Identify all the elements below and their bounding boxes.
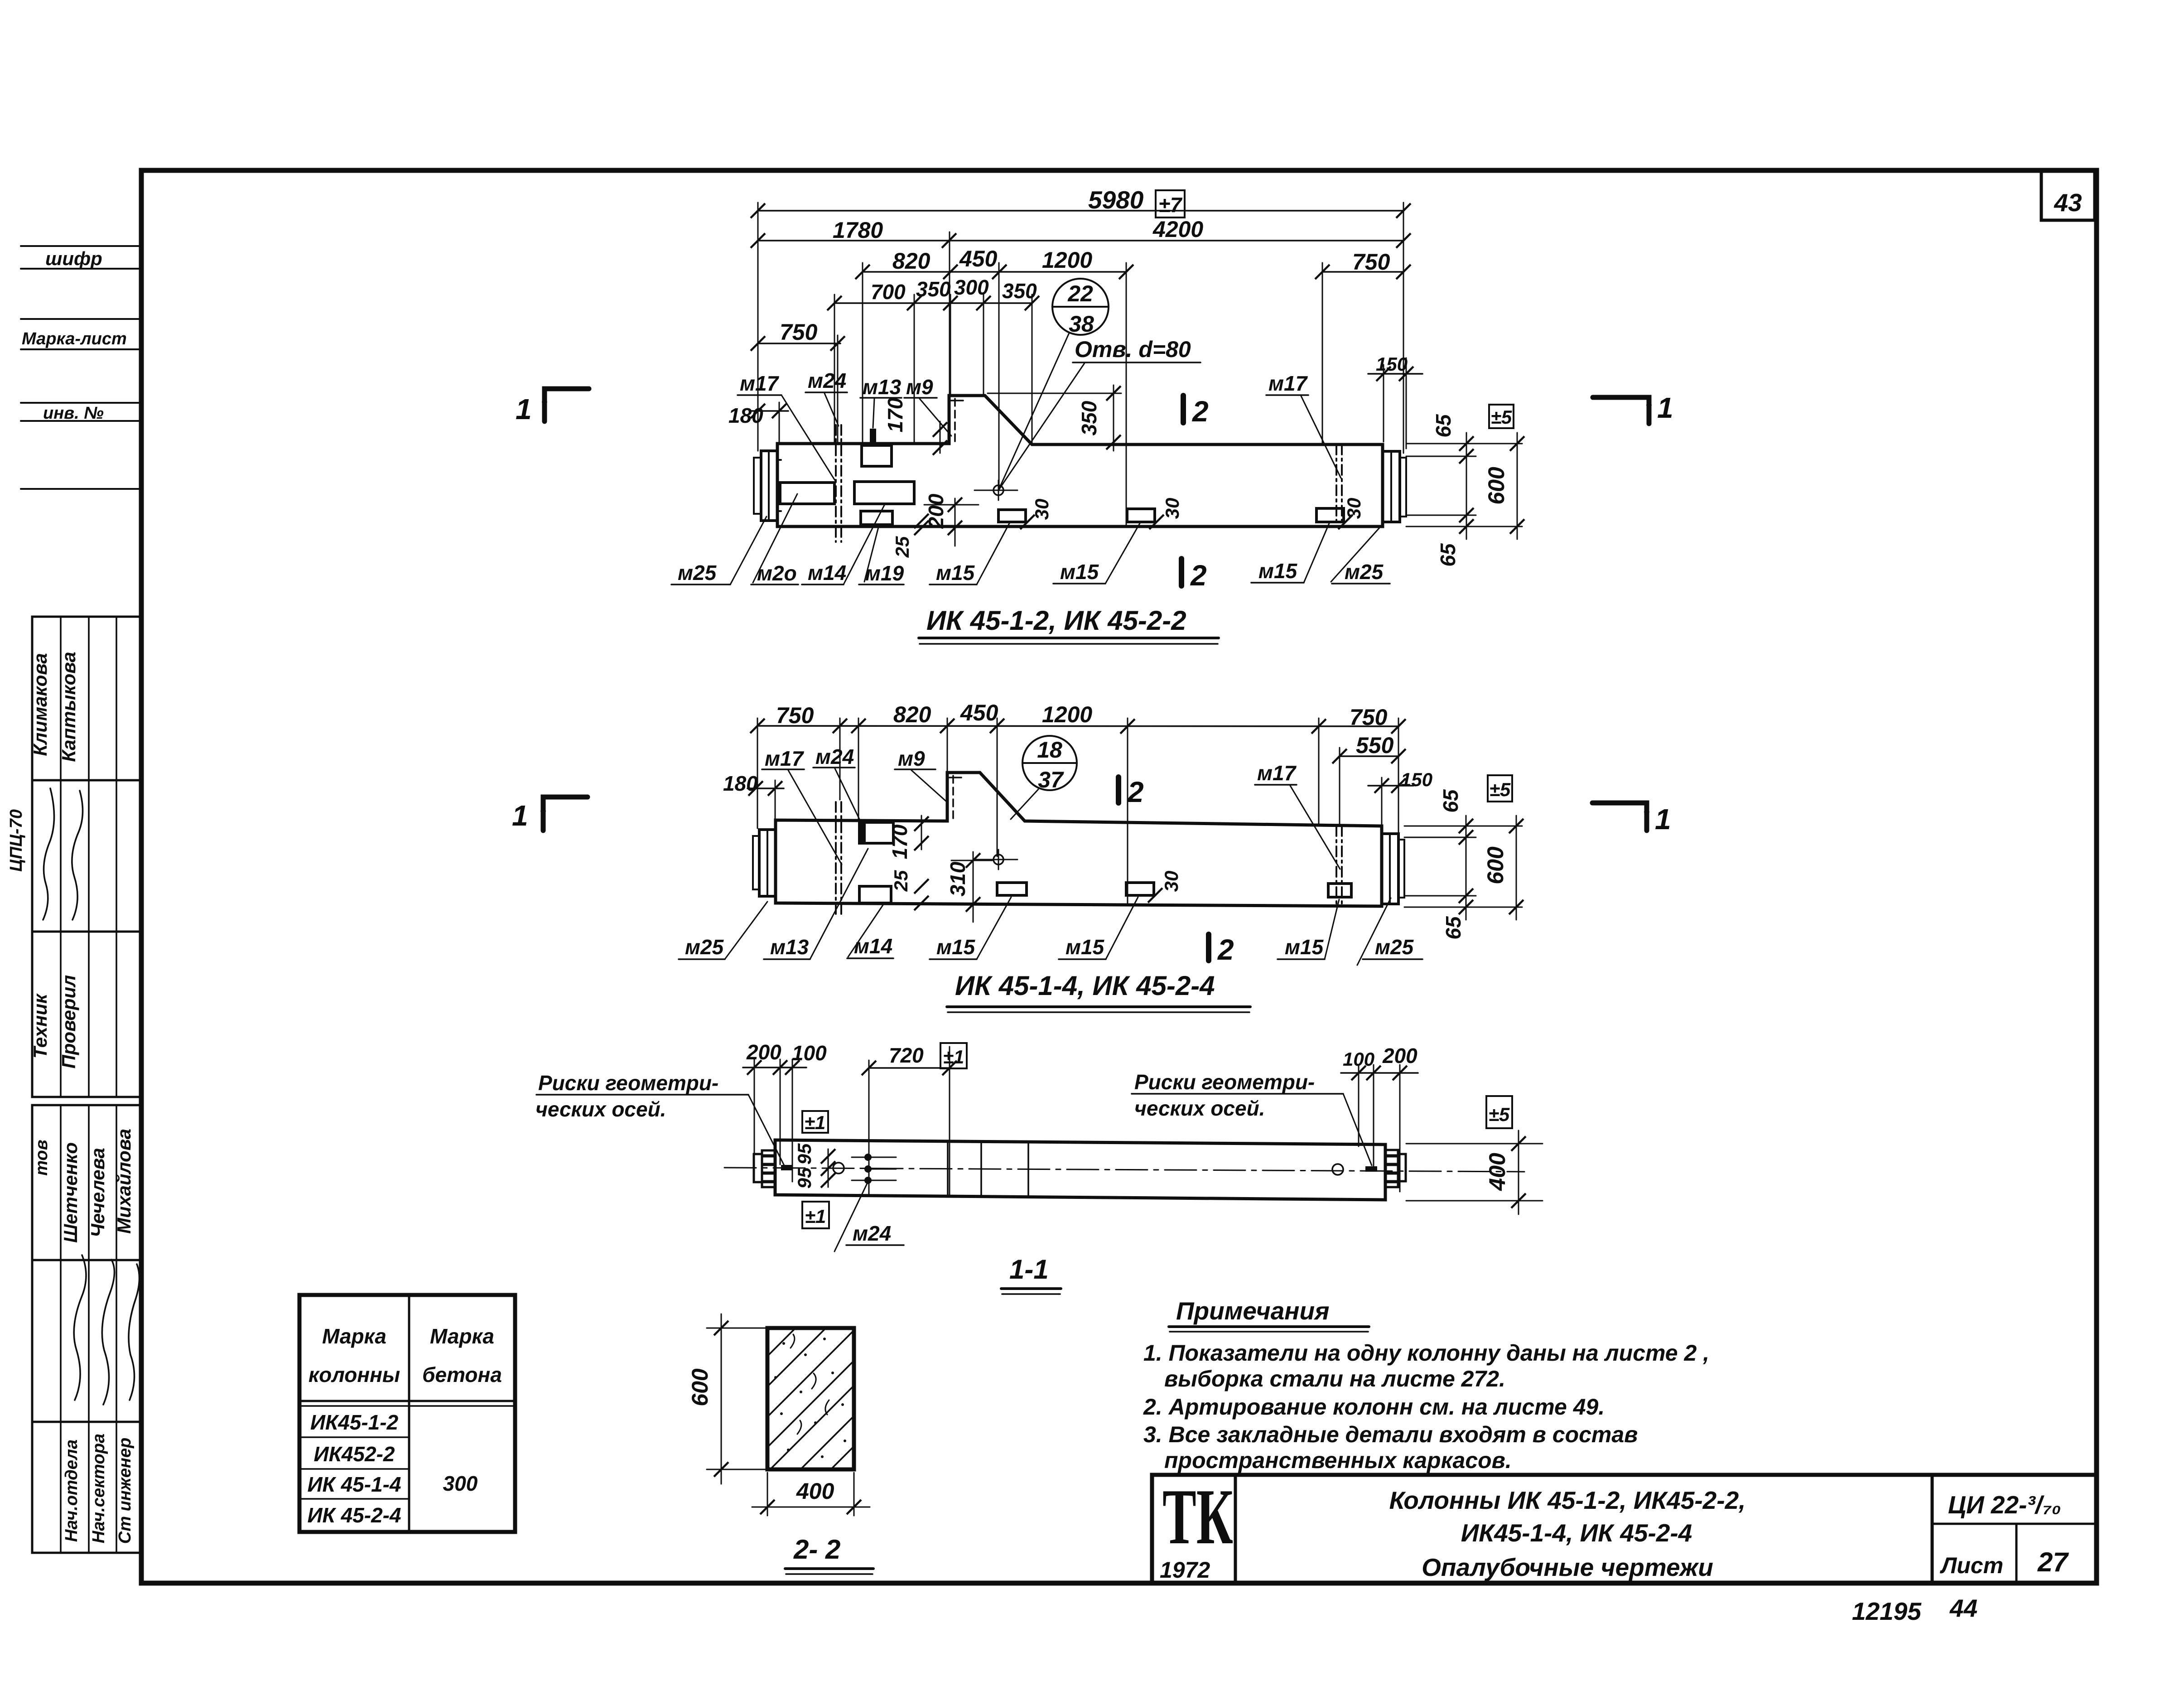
svg-text:2: 2 (1127, 776, 1144, 808)
svg-text:30: 30 (1161, 871, 1182, 892)
embedded plate м14 upper (859, 822, 893, 843)
svg-text:2. Артирование колонн см. н: 2. Артирование колонн см. на листе 49. (1143, 1394, 1605, 1420)
left end cap (759, 830, 776, 896)
svg-text:м15: м15 (1285, 935, 1324, 959)
dim 150 right top (1383, 365, 1384, 442)
dim 310 (973, 852, 974, 922)
svg-text:ЦИ 22-³/₇₀: ЦИ 22-³/₇₀ (1948, 1491, 2061, 1519)
extension verticals top drawing (757, 203, 759, 451)
svg-text:м15: м15 (936, 935, 976, 959)
callout circle 18/37 (1022, 736, 1077, 790)
hatched section body (767, 1328, 854, 1469)
left toothed end cap (754, 1154, 762, 1182)
callout circle 22/38 (1052, 279, 1109, 335)
svg-text:350: 350 (1077, 401, 1101, 435)
dim 750 820 450 1200 750 (757, 726, 1398, 726)
rotated signatures upper block (43, 788, 54, 920)
section mark 2 top (1181, 396, 1186, 423)
svg-text:±5: ±5 (1490, 779, 1511, 800)
svg-text:Отв. d=80: Отв. d=80 (1075, 337, 1191, 362)
anchor м17 hidden lines right (1335, 444, 1337, 527)
right side dims 65 600 65 (1404, 826, 1522, 827)
svg-text:30: 30 (1162, 498, 1183, 519)
hole right in plan (1332, 1164, 1343, 1175)
dim 820 450 1200 750 (863, 271, 1126, 273)
embedded plate м20 (780, 483, 834, 504)
svg-text:м17: м17 (765, 747, 805, 770)
svg-text:150: 150 (1401, 769, 1432, 790)
svg-text:2: 2 (1190, 559, 1207, 592)
dim 180 (747, 787, 784, 789)
section mark 1 right (1593, 397, 1649, 424)
svg-text:м15: м15 (1258, 559, 1298, 583)
svg-text:4200: 4200 (1152, 217, 1203, 242)
svg-text:65: 65 (1442, 916, 1465, 940)
beam outline plan view (775, 1140, 1385, 1200)
svg-text:м25: м25 (1375, 935, 1414, 959)
svg-text:30: 30 (1343, 498, 1364, 519)
svg-text:350: 350 (916, 277, 951, 301)
svg-text:25: 25 (892, 536, 913, 558)
leader from circle to hole (998, 333, 1069, 490)
embedded plate м14 (854, 482, 914, 504)
svg-text:100: 100 (792, 1041, 827, 1065)
embedded plate lower left (859, 886, 891, 903)
svg-text:Риски геометри-: Риски геометри- (538, 1071, 718, 1095)
section mark 2 top (1116, 777, 1121, 803)
svg-text:Каптыкова: Каптыкова (58, 652, 79, 762)
svg-text:м14: м14 (854, 934, 892, 958)
svg-text:44: 44 (1949, 1594, 1977, 1622)
svg-text:Опалубочные чертежи: Опалубочные чертежи (1422, 1553, 1713, 1581)
svg-text:ЦПЦ-70: ЦПЦ-70 (7, 809, 26, 872)
svg-text:550: 550 (1356, 733, 1394, 758)
hole (993, 855, 1003, 865)
svg-text:750: 750 (1352, 249, 1390, 275)
svg-text:1: 1 (516, 393, 532, 425)
svg-text:м2о: м2о (757, 561, 797, 585)
dim 400 right (1406, 1143, 1543, 1145)
svg-text:170: 170 (888, 824, 911, 859)
svg-text:1200: 1200 (1042, 702, 1092, 727)
svg-text:Примечания: Примечания (1176, 1297, 1330, 1325)
svg-text:ИК 45-1-2, ИК 45-2-2: ИК 45-1-2, ИК 45-2-2 (926, 605, 1186, 636)
tolerance box ±1 lower left (802, 1202, 829, 1228)
hole Отв d=80 (993, 485, 1003, 495)
anchor м24 hidden lines (835, 802, 837, 915)
svg-text:колонны: колонны (309, 1363, 400, 1386)
svg-text:1. Показатели на одну колон: 1. Показатели на одну колонну даны на ли… (1143, 1340, 1709, 1366)
embedded plate м19 (861, 511, 892, 525)
geometric axis risk mark left (781, 1165, 793, 1170)
right toothed end cap (1385, 1150, 1398, 1187)
svg-text:тов: тов (32, 1140, 51, 1175)
dim 720 (869, 1067, 950, 1069)
left rotated signature table: lower block (32, 1105, 140, 1553)
svg-text:2- 2: 2- 2 (793, 1534, 840, 1565)
tolerance box ±1 top (940, 1043, 967, 1068)
dim 200 100 left (743, 1067, 806, 1068)
svg-text:300: 300 (443, 1472, 478, 1495)
dim 25 (914, 514, 929, 528)
svg-text:инв. №: инв. № (43, 404, 104, 423)
svg-text:пространственных каркасов.: пространственных каркасов. (1164, 1448, 1512, 1473)
dim 180 (750, 410, 788, 412)
dim 30 (1148, 888, 1162, 903)
svg-text:±5: ±5 (1491, 406, 1512, 428)
svg-text:820: 820 (892, 248, 930, 274)
svg-text:м15: м15 (1065, 935, 1105, 959)
dim 30 marks (1020, 515, 1035, 529)
svg-text:ИК 45-2-4: ИК 45-2-4 (307, 1503, 401, 1527)
svg-text:1: 1 (1657, 391, 1673, 424)
dim 150 right (1368, 785, 1413, 787)
right end cap (1383, 451, 1400, 522)
svg-text:выборка стали на листе 272.: выборка стали на листе 272. (1164, 1366, 1505, 1391)
svg-text:3. Все закладные детали вхо: 3. Все закладные детали входят в состав (1143, 1422, 1638, 1447)
svg-text:Нач.сектора: Нач.сектора (89, 1434, 108, 1543)
svg-text:38: 38 (1069, 311, 1094, 337)
extension verticals middle drawing (757, 718, 758, 828)
svg-text:м9: м9 (906, 375, 933, 399)
svg-text:400: 400 (1485, 1153, 1510, 1191)
svg-text:95: 95 (794, 1167, 815, 1188)
right end cap (1382, 834, 1398, 904)
dim 5980 (758, 210, 1403, 212)
left rotated signature table: upper block (32, 617, 140, 1097)
svg-text:Лист: Лист (1940, 1553, 2003, 1578)
hidden recess edge at corbel (952, 776, 954, 820)
left margin empty row line (21, 488, 141, 490)
centre axis line (724, 1168, 1524, 1172)
svg-text:2: 2 (1192, 395, 1209, 428)
tolerance box ±7 (1156, 190, 1185, 217)
column body outline (776, 773, 1382, 906)
svg-text:12195: 12195 (1852, 1597, 1922, 1625)
left end cap (761, 451, 777, 521)
dim 1780 / 4200 (758, 240, 1403, 242)
embedded plate м13 tab (870, 429, 876, 444)
svg-text:43: 43 (2054, 188, 2082, 217)
svg-text:180: 180 (723, 772, 758, 795)
svg-text:Михайлова: Михайлова (113, 1129, 135, 1234)
svg-text:22: 22 (1067, 281, 1093, 306)
section mark 1 left (545, 389, 589, 421)
anchor bolts м24 dots (864, 1154, 872, 1161)
svg-text:ческих осей.: ческих осей. (535, 1097, 666, 1121)
svg-text:±1: ±1 (805, 1112, 825, 1133)
rotated signatures lower block (74, 1255, 86, 1400)
dim 100 200 right (1341, 1072, 1418, 1074)
svg-text:750: 750 (780, 319, 818, 345)
hole left in plan (833, 1163, 844, 1174)
svg-text:м25: м25 (685, 935, 724, 959)
embedded plate м13 (862, 445, 892, 466)
svg-text:ИК45-1-4, ИК 45-2-4: ИК45-1-4, ИК 45-2-4 (1461, 1519, 1692, 1547)
internal corbel projection lines (947, 1141, 949, 1196)
section mark 2 bottom (1179, 559, 1184, 586)
svg-text:ТК: ТК (1162, 1473, 1233, 1560)
svg-text:95: 95 (794, 1143, 815, 1164)
svg-text:м17: м17 (1257, 761, 1297, 785)
geometric axis risk mark right (1365, 1166, 1377, 1172)
svg-text:м24: м24 (808, 369, 846, 392)
dim 200 (955, 498, 956, 546)
embedded plate м15 no.3 (1316, 508, 1344, 522)
svg-text:Марка: Марка (322, 1324, 386, 1348)
svg-text:310: 310 (946, 861, 969, 896)
svg-text:м13: м13 (863, 375, 902, 399)
svg-text:±5: ±5 (1489, 1104, 1510, 1125)
svg-text:шифр: шифр (45, 248, 102, 269)
svg-text:ческих осей.: ческих осей. (1134, 1097, 1265, 1120)
svg-text:бетона: бетона (422, 1363, 502, 1386)
section mark 1 left (543, 797, 588, 831)
tolerance box ±1 upper left (802, 1111, 828, 1133)
svg-text:200: 200 (746, 1040, 781, 1064)
svg-text:1: 1 (512, 799, 528, 832)
left margin row: инв. № (21, 402, 141, 404)
embedded plate м15 no.2 (1127, 509, 1155, 522)
svg-text:Чечелева: Чечелева (87, 1148, 108, 1237)
svg-text:25: 25 (890, 870, 911, 892)
svg-text:600: 600 (687, 1368, 713, 1406)
svg-text:Колонны ИК 45-1-2, ИК45-2-2,: Колонны ИК 45-1-2, ИК45-2-2, (1389, 1486, 1746, 1514)
svg-text:Проверил: Проверил (58, 975, 79, 1069)
svg-text:ИК 45-1-4, ИК 45-2-4: ИК 45-1-4, ИК 45-2-4 (955, 971, 1215, 1001)
svg-text:65: 65 (1436, 543, 1460, 567)
svg-text:м15: м15 (936, 561, 975, 584)
svg-text:1-1: 1-1 (1009, 1254, 1049, 1285)
svg-text:1200: 1200 (1042, 247, 1092, 273)
svg-text:37: 37 (1038, 767, 1064, 792)
svg-text:450: 450 (959, 246, 998, 271)
embedded plate м15 no.1 (998, 510, 1026, 522)
anchor м17 hidden lines right (1335, 826, 1337, 906)
svg-text:200: 200 (924, 493, 948, 529)
svg-text:м25: м25 (678, 561, 717, 584)
svg-text:2: 2 (1217, 933, 1234, 966)
svg-text:150: 150 (1376, 353, 1408, 375)
section mark 2 bottom (1206, 934, 1211, 961)
svg-text:ИК 45-1-4: ИК 45-1-4 (307, 1473, 401, 1496)
svg-text:±1: ±1 (805, 1206, 826, 1227)
svg-text:450: 450 (960, 700, 998, 725)
dim 400 below section (767, 1473, 768, 1516)
svg-text:м19: м19 (865, 561, 904, 585)
svg-text:м14: м14 (808, 561, 846, 584)
left margin row: марка-лист (21, 318, 141, 320)
svg-text:м17: м17 (740, 372, 780, 395)
svg-text:600: 600 (1483, 846, 1508, 884)
svg-text:1972: 1972 (1160, 1557, 1210, 1583)
svg-text:ИК452-2: ИК452-2 (313, 1442, 395, 1466)
svg-text:Шетченко: Шетченко (60, 1142, 81, 1243)
dim 700 350 300 350 (834, 302, 1032, 304)
svg-text:м9: м9 (898, 747, 925, 770)
svg-text:Ст инженер: Ст инженер (116, 1438, 135, 1544)
sheet frame border (141, 170, 2097, 1583)
svg-text:5980: 5980 (1088, 186, 1144, 214)
tolerance box ±5 (1489, 405, 1514, 428)
svg-text:65: 65 (1432, 414, 1455, 438)
svg-text:м25: м25 (1345, 560, 1384, 584)
tolerance box ±5 right (1486, 1096, 1512, 1128)
svg-text:м13: м13 (770, 935, 809, 959)
svg-text:м24: м24 (815, 745, 854, 768)
dim 750 left (758, 343, 840, 344)
svg-text:700: 700 (871, 280, 906, 304)
dim 550 (1340, 755, 1398, 757)
svg-text:720: 720 (889, 1043, 924, 1067)
svg-text:м24: м24 (853, 1222, 891, 1245)
svg-text:1: 1 (1655, 803, 1671, 836)
svg-text:820: 820 (893, 702, 931, 727)
embedded plate м15 no.1 (997, 883, 1027, 895)
leader from circle to corbel slope (1011, 789, 1038, 819)
svg-text:18: 18 (1037, 737, 1062, 763)
left margin row: шифр (21, 245, 141, 247)
svg-text:600: 600 (1484, 467, 1509, 505)
tolerance box ±5 (1488, 775, 1512, 802)
svg-text:Марка-лист: Марка-лист (22, 329, 127, 348)
hidden recess edge at corbel (954, 399, 956, 443)
section mark 1 right (1592, 803, 1647, 831)
svg-text:м15: м15 (1060, 560, 1099, 584)
svg-text:±7: ±7 (1159, 193, 1183, 217)
right side dims 65 600 65 (1406, 443, 1522, 444)
svg-text:±1: ±1 (943, 1046, 964, 1068)
svg-text:400: 400 (796, 1478, 834, 1504)
svg-text:Климакова: Климакова (29, 653, 51, 756)
svg-text:750: 750 (1350, 705, 1388, 730)
embedded plate м15 no.2 (1126, 883, 1154, 895)
svg-text:ИК45-1-2: ИК45-1-2 (310, 1410, 399, 1434)
dim 600 left of section (707, 1328, 770, 1329)
sheet number box 43 (2041, 170, 2095, 220)
svg-text:Марка: Марка (430, 1324, 494, 1348)
svg-text:27: 27 (2037, 1547, 2069, 1577)
concrete speckles (774, 1338, 846, 1458)
svg-text:1780: 1780 (833, 217, 883, 243)
svg-text:200: 200 (1382, 1044, 1417, 1068)
column body outline (777, 396, 1383, 527)
svg-text:30: 30 (1031, 499, 1052, 520)
svg-text:Техник: Техник (29, 993, 51, 1058)
svg-text:Нач.отдела: Нач.отдела (62, 1439, 81, 1542)
svg-text:65: 65 (1439, 789, 1462, 813)
svg-text:750: 750 (776, 703, 814, 728)
anchor м24 hidden lines (835, 425, 837, 542)
embedded plate м15 no.3 (1328, 884, 1351, 897)
svg-text:м17: м17 (1268, 372, 1308, 395)
dim 350 corbel (1113, 385, 1114, 451)
svg-text:Риски геометри-: Риски геометри- (1134, 1070, 1315, 1094)
svg-text:170: 170 (883, 397, 907, 432)
